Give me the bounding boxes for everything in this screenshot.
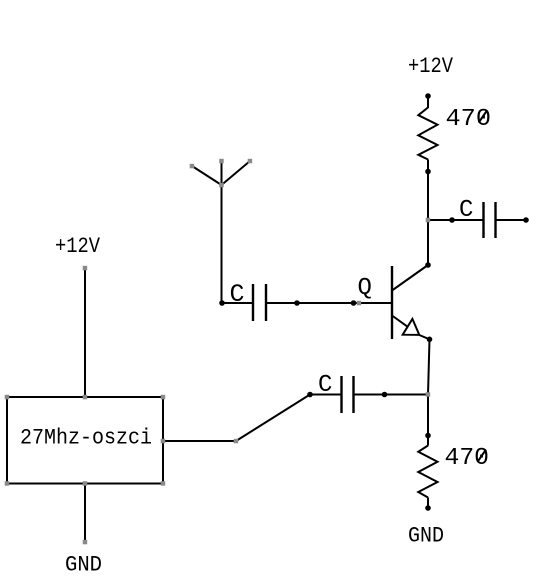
transistor Q: emitter lead (bar to arrow): [393, 316, 407, 326]
node dot: below R1: [425, 169, 431, 175]
node dot: emitter: [427, 337, 433, 343]
capacitor C (antenna coupling) plates: [252, 284, 254, 321]
handle: emitter junction: [426, 392, 431, 397]
handle: oscillator box right-mid: [161, 439, 166, 444]
wire: oscillator cap to emitter junction: [354, 394, 429, 396]
transistor Q: emitter lead (arrow to node): [419, 335, 429, 339]
node dot: GND terminal: [425, 505, 431, 511]
wire: to oscillator coupling cap: [310, 394, 342, 396]
resistor R (collector, 470): [418, 108, 437, 160]
handle: oscillator box top-right: [161, 395, 166, 400]
svg-text:+12V: +12V: [408, 54, 454, 79]
node dot: top of R2: [425, 433, 431, 439]
handle: oscillator box bottom-right: [161, 481, 166, 486]
node dot: top of R1 feed: [425, 93, 431, 99]
node dot: antenna lead bottom: [219, 300, 225, 306]
capacitor C (output) plates: [482, 202, 484, 238]
handle: oscillator box top-mid: [83, 395, 88, 400]
wire: R1 bottom to collector node: [427, 160, 429, 266]
slash of zero in 470 (top): [479, 111, 487, 123]
handle: antenna right arm end: [248, 159, 253, 164]
handle: antenna vertex: [219, 183, 224, 188]
wire: oscillator output (horizontal): [163, 440, 236, 442]
handle: oscillator box bottom-mid: [83, 481, 88, 486]
transistor Q: emitter arrowhead (open triangle): [403, 319, 420, 335]
wire: base (antenna side): [222, 302, 253, 304]
handle: antenna mast top: [219, 159, 224, 164]
oscillator box U1: [7, 397, 163, 484]
svg-text:GND: GND: [65, 553, 102, 578]
handle: oscillator box top-left: [5, 395, 10, 400]
antenna: right arm: [222, 161, 251, 185]
wire: oscillator box to GND: [84, 484, 86, 543]
slash of zero in 470 (bottom): [478, 450, 486, 462]
resistor R (emitter, 470): [418, 446, 437, 498]
svg-text:470: 470: [446, 106, 492, 133]
handle: GND wire bottom (oscillator): [83, 540, 88, 545]
wire: emitter down to bypass junction: [428, 339, 430, 394]
wire: +12V feed down to R1: [427, 96, 429, 108]
antenna: left arm: [192, 166, 222, 185]
wire: collector node to output cap: [427, 219, 484, 221]
node dot: on base wire near transistor: [351, 300, 357, 306]
antenna: mast lead: [221, 161, 223, 303]
node dot: output terminal: [523, 217, 529, 223]
svg-text:Q: Q: [358, 275, 372, 302]
wire: output cap to output terminal: [496, 219, 527, 221]
wire: junction down to R2: [427, 395, 429, 446]
svg-text:C: C: [459, 197, 473, 224]
transistor Q: base bar: [391, 266, 393, 339]
node dot: on output wire: [449, 217, 455, 223]
wire: +12V to oscillator box: [84, 268, 86, 397]
transistor Q: collector lead: [393, 265, 428, 290]
svg-text:C: C: [230, 280, 245, 309]
handle: collector/output junction: [426, 218, 431, 223]
wire: R2 to GND terminal: [427, 498, 429, 509]
capacitor C (oscillator coupling) plates: [340, 376, 342, 413]
node dot: collector connection: [425, 262, 431, 268]
node dot: on base wire: [294, 300, 300, 306]
handle: +12V wire top (oscillator): [83, 266, 88, 271]
wire: oscillator output (diagonal): [236, 395, 310, 442]
handle: oscillator box bottom-left: [5, 481, 10, 486]
svg-text:C: C: [318, 372, 332, 399]
handle: base wire near transistor: [357, 301, 362, 306]
svg-text:GND: GND: [408, 523, 444, 549]
handle: oscillator wire bend: [234, 439, 239, 444]
svg-text:27Mhz-oszci: 27Mhz-oszci: [20, 426, 152, 451]
node dot: on emitter coupling wire: [382, 392, 388, 398]
node dot: oscillator coupling cap input: [307, 392, 313, 398]
svg-text:+12V: +12V: [55, 234, 101, 259]
svg-text:470: 470: [445, 445, 490, 472]
wire: coupling cap to base: [266, 302, 392, 304]
handle: antenna left arm end: [190, 164, 195, 169]
